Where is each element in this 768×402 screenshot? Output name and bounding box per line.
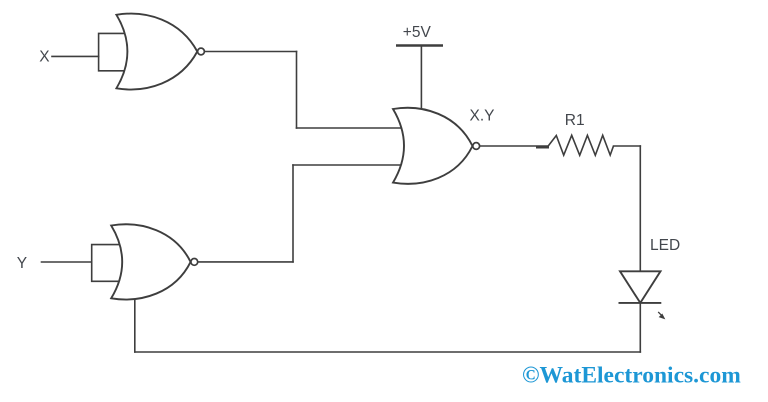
power +5V bar: [396, 44, 443, 47]
LED emission arrow: [658, 312, 664, 318]
wire vertical drop from U1 output: [296, 52, 298, 129]
nor-gate U2 (output X.Y): [393, 108, 480, 184]
svg-text:X.Y: X.Y: [470, 107, 495, 124]
wire vertical rise from U3 output: [292, 165, 294, 262]
wire U1 output to node: [205, 51, 297, 53]
wire U3 input tie (both NOR inputs shorted): [92, 245, 120, 282]
nor-gate U1 (input X): [116, 14, 204, 90]
wire Y input: [42, 261, 92, 263]
svg-text:X: X: [39, 48, 50, 65]
wire LED cathode down: [639, 303, 641, 352]
svg-text:Y: Y: [17, 255, 27, 272]
wire U3 output to node: [198, 261, 293, 263]
svg-text:©WatElectronics.com: ©WatElectronics.com: [522, 362, 741, 388]
svg-text:+5V: +5V: [403, 24, 432, 41]
wire into U2 lower input: [293, 164, 401, 166]
svg-text:LED: LED: [650, 237, 680, 254]
wire U1 input tie (both NOR inputs shorted): [99, 33, 126, 70]
wire overlap dash before R1: [536, 146, 549, 149]
wire into U2 upper input: [297, 127, 402, 129]
wire U3 bottom pin down: [134, 297, 136, 352]
wire resistor to top-right corner: [614, 145, 641, 147]
wire right vertical to LED anode: [639, 146, 641, 271]
svg-text:R1: R1: [565, 112, 585, 129]
wire +5V supply drop to U2: [420, 46, 422, 113]
wire X input: [52, 55, 99, 57]
resistor R1 zigzag: [548, 135, 613, 155]
wire bottom return: [135, 351, 641, 353]
LED D1: [619, 271, 662, 303]
nor-gate U3 (input Y): [111, 224, 198, 299]
wire U2 output to resistor: [480, 145, 548, 147]
